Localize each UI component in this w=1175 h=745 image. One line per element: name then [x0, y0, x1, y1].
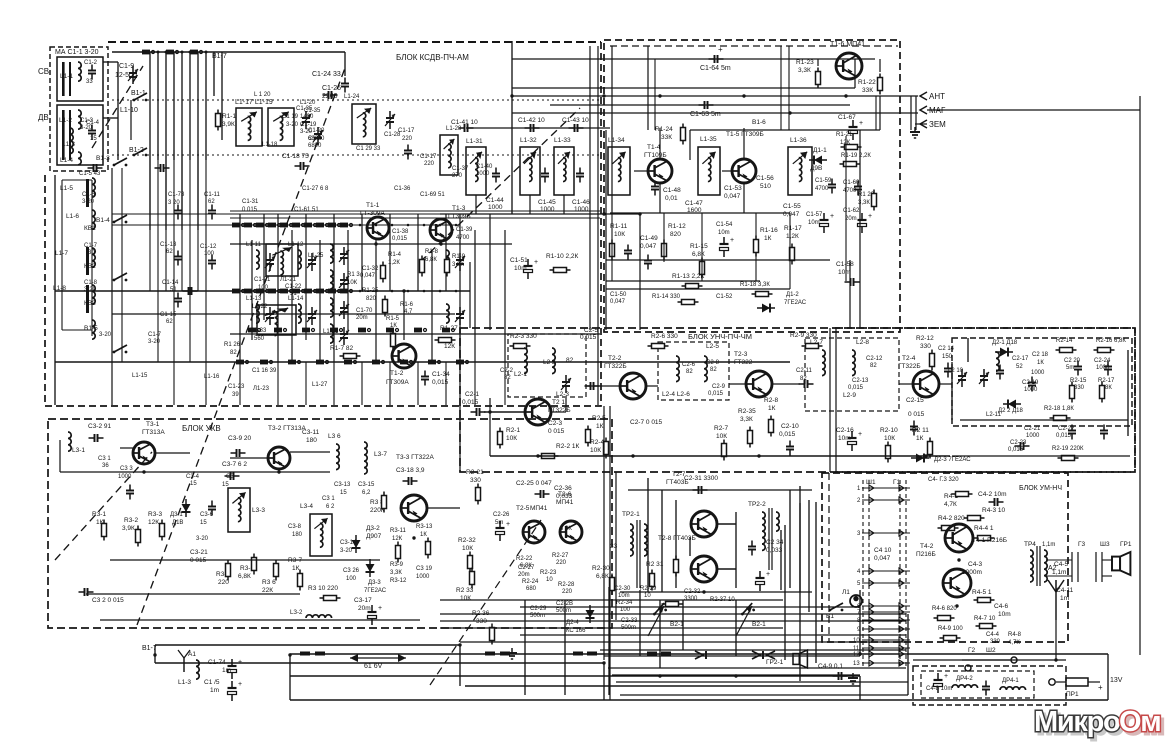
contact row y330: [302, 328, 315, 333]
capacitor C1-26 2200: [341, 78, 349, 93]
svg-text:Д1-2: Д1-2: [786, 292, 799, 298]
label Д1В: [172, 520, 183, 526]
label 10m: [838, 269, 851, 276]
label С1-58: [836, 261, 854, 268]
label С3-2 91: [88, 423, 112, 430]
bus junction: [638, 212, 641, 215]
label C1-2: [84, 60, 98, 66]
svg-text:L1-18: L1-18: [262, 142, 278, 148]
svg-text:Т2-4: Т2-4: [902, 355, 916, 362]
resistor R3-6: [274, 560, 279, 581]
label Т1-5 ГТ309Б: [726, 131, 764, 138]
coil L2-5: [704, 356, 707, 382]
contact on B1-7 rail: [587, 652, 597, 656]
svg-text:R4-5 1: R4-5 1: [972, 589, 992, 596]
label L2 2: [543, 359, 556, 366]
connector dashed line: [868, 480, 870, 668]
capacitor C1-11: [208, 205, 216, 220]
svg-text:+: +: [859, 120, 863, 127]
harness vertical wire: [524, 600, 526, 695]
label 150: [942, 354, 953, 360]
svg-text:L3-1: L3-1: [72, 447, 85, 454]
right edge trunk wire: [1139, 96, 1141, 655]
label С2-8: [706, 360, 720, 366]
svg-text:С1-67: С1-67: [838, 114, 856, 121]
label С3-21: [190, 549, 208, 556]
capacitor C2-25: [535, 490, 550, 498]
resistor R2-3: [510, 344, 531, 349]
label R2-37 10: [710, 597, 735, 603]
coil L1 tuned: [446, 250, 449, 269]
MAG wire to right edge: [927, 109, 1140, 111]
label R1-12: [668, 223, 686, 230]
arrow pair symbol c: [767, 651, 775, 659]
label 560: [254, 336, 265, 342]
label 33К: [862, 87, 873, 94]
svg-text:Ш3: Ш3: [1100, 541, 1110, 548]
contact row y291: [292, 289, 305, 294]
vertical trunk x606: [605, 130, 607, 330]
contact B1 pin 4: [166, 50, 179, 55]
svg-text:С1-49: С1-49: [640, 235, 658, 242]
svg-text:ГТ322Б: ГТ322Б: [548, 407, 571, 414]
label 5m: [495, 520, 503, 526]
resistor R2-15: [1070, 382, 1075, 403]
label С1-17: [420, 154, 437, 160]
switch V1: [829, 603, 844, 611]
svg-text:10К: 10К: [462, 545, 473, 552]
bus wire C1-63: [550, 104, 850, 106]
svg-text:С1-17: С1-17: [420, 154, 437, 160]
terminal МАГ: [920, 106, 946, 115]
label С4-5: [1054, 561, 1068, 568]
wire: [59, 440, 61, 472]
converter vertical wire: [431, 250, 433, 362]
IF transformer L1-17: [236, 108, 262, 146]
label L1-10: [120, 107, 138, 114]
label 6,8К: [425, 257, 437, 263]
capacitor C1-15: [174, 293, 182, 308]
svg-text:С1-64 5m: С1-64 5m: [700, 65, 731, 72]
label С1 16 39: [252, 368, 277, 374]
label С2-19: [1022, 380, 1039, 386]
label MA C1-1: [55, 49, 99, 56]
label R2-29: [640, 586, 657, 592]
svg-text:С2-26: С2-26: [493, 512, 510, 518]
bus wire to ANT: [512, 95, 918, 97]
coil L1-11: [256, 250, 259, 269]
ferrite bar DV: [62, 110, 65, 160]
wire: [689, 130, 691, 160]
svg-text:С1-45: С1-45: [538, 199, 556, 206]
connector pin 13: [853, 660, 910, 667]
label 30: [88, 250, 95, 256]
svg-text:С4-4: С4-4: [986, 632, 1000, 638]
svg-text:3,9К: 3,9К: [222, 121, 235, 128]
svg-text:С2-12: С2-12: [866, 356, 883, 362]
label С2-15: [906, 397, 924, 404]
connector dashed line: [899, 480, 901, 668]
diode D2-1: [995, 348, 1013, 357]
label 12К: [148, 519, 159, 526]
loudspeaker GR1: [1112, 552, 1130, 575]
svg-text:R1-11: R1-11: [610, 223, 628, 230]
ecap C1-57: [820, 213, 835, 233]
svg-text:15: 15: [90, 136, 97, 142]
label R1 20: [858, 192, 875, 198]
label С2-21: [1024, 426, 1041, 432]
svg-text:С1-14: С1-14: [162, 280, 179, 286]
label С2 20: [1064, 358, 1081, 364]
label 270: [452, 173, 463, 179]
svg-text:С3-2 91: С3-2 91: [88, 423, 112, 430]
label Д907: [366, 533, 382, 540]
svg-text:20m: 20m: [356, 315, 368, 321]
label МП41: [530, 505, 548, 512]
svg-text:L1-15: L1-15: [132, 373, 148, 379]
svg-text:R1-22: R1-22: [858, 79, 876, 86]
svg-text:L3-7: L3-7: [374, 451, 387, 458]
label 10К: [884, 435, 895, 442]
transformer TR2-1 secondary: [644, 524, 647, 556]
bus junction: [288, 653, 291, 656]
label С1-42 10: [518, 117, 545, 124]
label Т2-3: [734, 351, 748, 358]
svg-text:7ГЕ2АС: 7ГЕ2АС: [364, 588, 387, 594]
label С2-30: [614, 586, 631, 592]
label С1-56: [756, 175, 774, 182]
coil L1-3 bottom: [196, 660, 199, 679]
svg-text:0,015: 0,015: [708, 391, 724, 397]
svg-text:С3 1: С3 1: [98, 456, 111, 462]
block UM-NCh outline: [822, 473, 1068, 642]
label Т1-1: [366, 202, 380, 209]
IF emitter rail: [610, 212, 790, 214]
svg-text:+: +: [534, 259, 538, 266]
label 0,015: [1008, 447, 1024, 453]
label 1К: [420, 532, 427, 538]
wire: [213, 52, 215, 96]
label 500m: [530, 613, 545, 619]
transistor T1-3 GT309B: [430, 219, 452, 241]
wire: [62, 179, 92, 181]
svg-text:R1-12: R1-12: [668, 223, 686, 230]
label 10К: [460, 595, 471, 602]
drop R1-12: [663, 213, 665, 262]
wire: [563, 195, 565, 214]
label С3-9 20: [228, 435, 252, 442]
trimmer near L1-14: [307, 307, 317, 325]
svg-text:С3: С3: [226, 474, 234, 480]
label Т3-3 ГТ322А: [396, 454, 435, 461]
label 0,01: [665, 195, 678, 202]
label 1К: [292, 565, 300, 572]
label С1-33: [250, 328, 267, 334]
UNCh top border right: [835, 327, 1135, 329]
svg-text:Т3-2 ГТ313А: Т3-2 ГТ313А: [268, 425, 307, 432]
resistor R3-11: [396, 542, 401, 563]
svg-text:ДР4-2: ДР4-2: [956, 676, 973, 682]
label SV: [38, 67, 49, 76]
coil L1-6: [92, 210, 95, 229]
svg-text:5m: 5m: [495, 520, 503, 526]
wire: [1046, 559, 1072, 561]
svg-text:15: 15: [200, 520, 207, 526]
svg-text:20m: 20m: [845, 216, 857, 222]
svg-text:СВ: СВ: [38, 67, 49, 76]
svg-text:220: 220: [556, 560, 567, 566]
T1-6 vertical: [780, 46, 782, 130]
svg-text:ГР1: ГР1: [1120, 541, 1132, 548]
svg-text:10m: 10m: [808, 220, 820, 226]
svg-text:R2-35: R2-35: [738, 408, 756, 415]
transistor T2-2 GT322B: [620, 373, 646, 399]
svg-text:180: 180: [306, 437, 317, 444]
label С4-8 10m: [926, 686, 952, 692]
bus junction: [602, 661, 605, 664]
label С1-19: [300, 122, 317, 128]
capacitor C1-63 5m: [699, 101, 714, 109]
label L1-17 L1-19: [235, 99, 273, 106]
svg-text:150: 150: [942, 354, 953, 360]
capacitor C1-73: [174, 205, 182, 220]
svg-text:13V: 13V: [1110, 677, 1123, 684]
label R1-23: [796, 59, 814, 66]
supply bus C1-64: [512, 58, 875, 60]
resistor R2-18: [1050, 416, 1071, 421]
harness wire: [440, 599, 783, 601]
contact on B1-7 rail: [573, 652, 583, 656]
wire: [189, 291, 191, 362]
label R1-18 3,3К: [740, 282, 770, 288]
converter drop wire: [333, 362, 335, 405]
AM vertical 2: [647, 46, 649, 130]
resistor R2-19: [1058, 456, 1079, 461]
label 10m: [998, 611, 1011, 618]
harness wire: [616, 681, 908, 683]
label Г2: [968, 647, 976, 654]
label С2-5: [584, 327, 598, 334]
svg-text:Т3-1: Т3-1: [146, 421, 160, 428]
resistor R2-33: [470, 568, 475, 589]
svg-text:R2-1: R2-1: [506, 427, 520, 434]
label С1-6: [82, 192, 96, 198]
bus junction: [374, 242, 377, 245]
label С2-2В: [556, 601, 573, 607]
driver vertical x790: [789, 490, 791, 588]
label Т1-2: [390, 370, 404, 377]
label С3: [226, 474, 234, 480]
label 12К: [840, 140, 851, 146]
transformer TR2-2 secondary: [776, 512, 779, 531]
bus junction: [488, 410, 491, 413]
svg-text:С1-17: С1-17: [398, 128, 415, 134]
label R3-13: [416, 524, 433, 530]
svg-text:1400: 1400: [300, 114, 314, 120]
label R2-4: [590, 439, 604, 446]
wire: [459, 645, 461, 686]
rail y334: [230, 333, 600, 335]
label В1-2: [129, 147, 144, 154]
svg-text:R3-2: R3-2: [124, 517, 138, 524]
IF bottom rail: [440, 213, 640, 215]
resistor R1-18: [752, 292, 773, 297]
label 6 2: [326, 504, 335, 510]
coil L2-2: [552, 348, 555, 374]
ferrite bar KV1: [86, 179, 89, 207]
filter top wire: [913, 659, 1066, 661]
UKV rail y472: [60, 471, 330, 473]
rail y214: [112, 213, 460, 215]
label С1-40: [476, 164, 493, 170]
svg-text:1К: 1К: [916, 435, 924, 442]
svg-text:L1-33: L1-33: [554, 137, 571, 144]
svg-text:R3-12: R3-12: [390, 578, 407, 584]
label L2-9: [843, 392, 856, 399]
capacitor C2-15: [910, 421, 918, 436]
detector inner rail: [960, 419, 1128, 421]
label 1,2К: [388, 260, 400, 266]
diode D2-2: [1003, 400, 1021, 409]
label R4-7 10: [974, 616, 996, 622]
contact row y225: [268, 223, 281, 228]
svg-text:Ш2: Ш2: [986, 647, 996, 654]
contact row y330: [358, 328, 371, 333]
resistor R2-12: [930, 350, 935, 371]
capacitor mid filter: [982, 681, 990, 696]
label С1-52: [716, 294, 733, 300]
label 0,047: [360, 273, 376, 279]
svg-text:R2-4: R2-4: [590, 439, 604, 446]
label 82: [870, 363, 877, 369]
trimmer near L1: [455, 253, 465, 271]
converter vertical wire: [489, 214, 491, 330]
svg-text:4,7К: 4,7К: [1008, 640, 1020, 646]
label R3 10 220: [308, 585, 338, 592]
svg-text:L1-6: L1-6: [66, 213, 79, 220]
label 3-20: [340, 548, 353, 554]
label B1-4: [96, 217, 110, 224]
svg-text:С2-17: С2-17: [1012, 356, 1029, 362]
svg-text:4700: 4700: [815, 186, 829, 192]
drop to ANT bus: [875, 96, 877, 130]
contact row y225: [316, 223, 329, 228]
resistor R2-4: [604, 438, 609, 459]
T2-7 collector to TR2-2: [717, 523, 736, 525]
label R2 5: [592, 415, 606, 422]
coil L3-6: [336, 444, 339, 470]
svg-text:L1-17 L1-19: L1-17 L1-19: [235, 99, 273, 106]
label ГТ322Б: [548, 407, 571, 414]
connector pin 5: [857, 580, 910, 587]
switch B1-5: [113, 345, 128, 353]
junction: [181, 51, 184, 54]
svg-text:0,015: 0,015: [580, 334, 597, 341]
coil L1-9: [92, 320, 95, 339]
label R2-22: [516, 556, 533, 562]
vertical trunk x590: [589, 46, 591, 330]
label L2-5: [706, 343, 719, 350]
label 0 015: [908, 411, 925, 418]
driver vertical x676: [675, 500, 677, 588]
wire: [112, 404, 600, 406]
label 220: [218, 579, 229, 586]
svg-text:С1-9: С1-9: [119, 63, 134, 70]
label R2-18 1,8К: [1044, 406, 1074, 412]
label Д3-2: [366, 525, 380, 532]
svg-text:С1-69 51: С1-69 51: [420, 192, 445, 198]
svg-text:L1-3: L1-3: [178, 679, 191, 686]
svg-text:L2 2: L2 2: [543, 359, 556, 366]
label С2-32: [684, 589, 701, 595]
svg-text:10: 10: [546, 577, 553, 583]
label С1-17: [398, 128, 415, 134]
coil L2-4: [676, 356, 679, 382]
label Т2 1: [552, 399, 565, 406]
coil L1-7: [92, 248, 95, 267]
resistor R3-1: [102, 520, 107, 541]
svg-text:+: +: [858, 431, 862, 438]
label С2-12: [866, 356, 883, 362]
svg-text:R1-15: R1-15: [690, 243, 708, 250]
label С1-70: [356, 308, 373, 314]
label 33: [610, 543, 618, 550]
svg-text:R2-6 330: R2-6 330: [651, 333, 678, 340]
label Д9В: [810, 165, 822, 172]
converter drop wire: [474, 362, 476, 405]
label 4700: [815, 186, 829, 192]
contact row y330: [274, 328, 287, 333]
svg-text:Т2-3: Т2-3: [734, 351, 748, 358]
ecap C1-54: [720, 237, 735, 257]
resistor R1-13: [682, 284, 703, 289]
svg-text:R4-3 10: R4-3 10: [982, 507, 1006, 514]
label С2-31 3300: [684, 475, 718, 482]
resistor R4-1: [952, 492, 973, 497]
label R2-14: [1056, 338, 1073, 344]
coil L1-2: [78, 110, 81, 129]
label 6800: [308, 143, 322, 149]
label R2 36: [472, 610, 490, 617]
capacitor C3-9: [231, 449, 246, 457]
svg-text:С3-15: С3-15: [358, 482, 375, 488]
label ГТ313А: [142, 429, 165, 436]
svg-text:LЗ-2: LЗ-2: [290, 610, 303, 616]
svg-text:С1-32: С1-32: [362, 266, 379, 272]
label С1-50: [610, 292, 627, 298]
left rail wire: [54, 175, 56, 405]
label B1-5: [84, 325, 98, 332]
TR2-2 core line 1: [768, 508, 770, 570]
bottom bus 3: [155, 662, 604, 664]
label 0,015: [779, 431, 796, 438]
converter vertical wire: [305, 214, 307, 340]
label L1-3: [178, 679, 191, 686]
resistor R4-9: [940, 636, 961, 641]
label С2 18: [1032, 352, 1049, 358]
label 0,015: [392, 236, 408, 242]
bus junction: [631, 454, 634, 457]
wire: [565, 398, 567, 412]
svg-text:6,2: 6,2: [362, 490, 371, 496]
harness wire: [460, 641, 906, 643]
svg-text:С2-10: С2-10: [781, 423, 799, 430]
label 180: [306, 437, 317, 444]
label 220: [556, 560, 567, 566]
svg-text:С1-31: С1-31: [242, 199, 259, 205]
ecap C1-74: [228, 659, 243, 679]
wire: [915, 123, 927, 125]
